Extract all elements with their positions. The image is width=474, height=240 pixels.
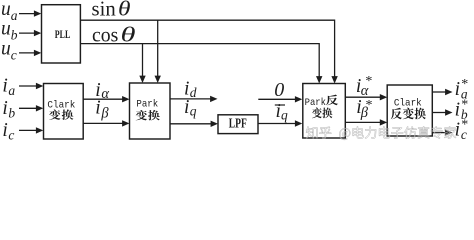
svg-text:d: d [190,85,197,100]
svg-text:i: i [455,99,460,120]
label cos theta [92,23,136,47]
wire i_q from Park to LPF [170,121,218,127]
svg-text:u: u [1,19,11,40]
svg-text:θ: θ [121,23,136,47]
wire i_c input arrow [19,127,43,133]
wire i_alpha-star from Park-inverse to Clark-inverse [345,94,387,100]
wire i_a-star output arrow [432,89,452,95]
label i_beta [95,98,109,122]
wire i_beta-star from Park-inverse to Clark-inverse [345,119,387,125]
label 0 [274,79,284,101]
svg-text:i: i [95,98,100,119]
label i_q [184,97,197,119]
block PLL (phase-locked loop) [42,5,81,63]
wire sin-theta branch down into Park top [155,20,161,83]
wire i_alpha from Clark to Park [83,96,129,102]
svg-text:i: i [2,120,7,141]
label sin theta [92,0,131,20]
svg-text:*: * [366,98,373,113]
label i_b [2,98,15,121]
svg-text:a: a [11,8,18,23]
svg-text:*: * [461,77,468,92]
svg-text:q: q [190,104,197,119]
svg-text:u: u [1,39,11,60]
svg-text:q: q [281,108,288,123]
block Park transform [130,83,171,139]
svg-text:b: b [11,28,18,43]
label i_c [2,120,14,143]
label u_a [1,0,18,23]
wire i_q-bar from LPF to Park-inverse [258,120,302,126]
svg-text:u: u [1,0,11,20]
label i_d [184,79,197,100]
wire i_b-star output arrow [432,109,452,115]
svg-text:Clark: Clark [394,97,422,109]
svg-text:*: * [461,118,468,133]
label i_alpha-star [356,74,373,99]
watermark: zhihu @ power-electronics-simulation-expert [306,126,456,139]
wire cos-theta branch down into Park top [139,44,145,83]
wire i_a input arrow [19,83,43,89]
svg-text:i: i [2,98,7,119]
block Clark transform [44,84,84,140]
wire zero d-axis reference into Park-inverse [258,96,302,102]
svg-text:cos: cos [92,23,118,47]
wire i_beta from Clark to Park [83,120,129,126]
svg-text:i: i [2,76,7,97]
wire cos-theta from PLL to Park-inverse top [80,44,322,84]
wire u_b input arrow [19,30,41,36]
svg-text:Clark: Clark [47,99,75,111]
label i_c-star [455,118,469,142]
label i_a [2,76,15,99]
wire i_c-star output arrow [432,129,452,135]
svg-text:sin: sin [92,0,117,20]
svg-text:α: α [101,86,109,102]
svg-text:Park: Park [136,99,158,111]
svg-text:c: c [8,128,14,143]
svg-text:LPF: LPF [229,116,247,131]
svg-text:β: β [100,106,109,122]
label i_q-bar with overline [275,101,288,123]
label u_c [1,39,17,63]
svg-text:*: * [461,98,468,113]
svg-text:0: 0 [274,79,284,101]
svg-text:Park: Park [305,97,326,109]
svg-text:c: c [11,48,17,63]
wire i_d output arrow (unconnected) [170,96,218,102]
label i_a-star [455,77,469,101]
svg-text:PLL: PLL [55,28,71,41]
label i_beta-star [356,97,372,121]
label i_alpha [95,80,109,102]
svg-text:a: a [8,83,15,98]
label i_b-star [455,98,469,122]
wire u_c input arrow [19,50,41,56]
wire u_a input arrow [19,10,41,16]
svg-text:i: i [455,79,460,100]
wire i_b input arrow [19,105,43,111]
wire sin-theta from PLL to Park-inverse top [80,20,337,83]
svg-text:θ: θ [118,0,131,20]
svg-text:i: i [184,97,189,118]
block Clark-inverse transform [387,85,432,136]
label u_b [1,19,18,43]
block Park-inverse transform [303,84,346,139]
svg-text:b: b [8,106,15,121]
svg-text:*: * [365,74,372,89]
block LPF (low-pass filter) [218,115,258,134]
